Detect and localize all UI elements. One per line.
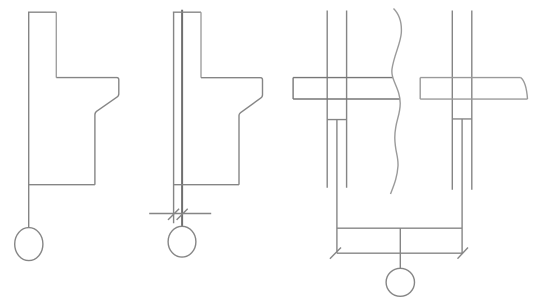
wire column-1 top edge [28, 11, 56, 13]
break wavy line [391, 9, 402, 195]
pile line (dark) [181, 10, 183, 226]
wire column-1 bottom edge [29, 184, 95, 186]
cap beam B bottom edge [420, 98, 527, 100]
footing center stem [399, 228, 401, 268]
cap beam A top edge [293, 77, 393, 79]
wire column-2 left edge [173, 12, 175, 224]
cap beam B top edge [420, 77, 521, 79]
wire column-2 upper right edge [200, 12, 202, 78]
wire corbel-2 top edge, right edge, chamfer and lower right edge [201, 78, 263, 185]
dropper A [336, 120, 338, 254]
dropper B [461, 119, 463, 253]
wire column-1 upper right edge [55, 12, 57, 77]
pile B right line [471, 11, 473, 190]
pile cap B bottom [452, 118, 472, 120]
wire column-2 bottom edge [174, 184, 239, 186]
cap beam B left end [419, 78, 421, 100]
cap beam A bottom edge [293, 98, 400, 100]
pile B left line [451, 11, 453, 190]
node circle mark 2 [168, 226, 196, 257]
wire corbel-1 top edge, right edge, chamfer and lower right edge [56, 78, 119, 185]
footing end slash left [330, 248, 341, 259]
cut slash 2 [177, 209, 188, 220]
cap beam A left end [292, 78, 294, 99]
cut slash 1 [168, 209, 179, 220]
wire column-2 top edge [173, 11, 201, 13]
cap beam B chamfered end [521, 78, 528, 100]
footing bottom edge [337, 252, 462, 254]
pile A right line [346, 11, 348, 188]
footing top edge [337, 227, 462, 229]
ground line under figure 2 [149, 213, 211, 215]
footing end slash right [458, 248, 469, 259]
wire column-1 left edge [28, 12, 30, 228]
pile A left line [326, 11, 328, 188]
node circle mark 3 [386, 268, 414, 296]
pile cap A bottom [327, 119, 346, 121]
node circle mark 1 [15, 228, 43, 261]
